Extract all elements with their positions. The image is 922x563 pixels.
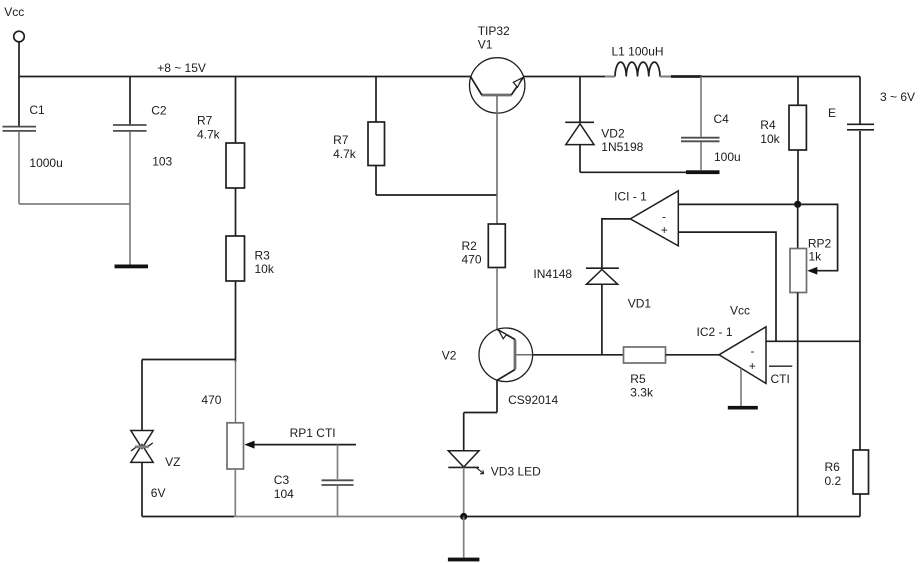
wire E down to R6 [859,131,861,450]
arrow V1 emitter [513,78,522,88]
wire V2 emitter down to LED [496,380,498,412]
svg-text:1000u: 1000u [29,156,62,170]
svg-text:CTI: CTI [771,372,790,386]
svg-text:C2: C2 [151,104,167,118]
ground under C2 [115,265,149,269]
wire bold segment right of L1 [671,75,702,78]
svg-text:R5: R5 [630,372,646,386]
wire IC2 minus input [766,340,860,342]
wire rail to R7 second [375,77,377,123]
svg-text:470: 470 [201,393,221,407]
svg-text:ICI - 1: ICI - 1 [614,190,647,204]
svg-text:103: 103 [152,155,172,169]
svg-text:VD1: VD1 [628,297,652,311]
svg-text:10k: 10k [760,132,780,146]
svg-text:3.3k: 3.3k [630,386,654,400]
resistor R3 [226,236,245,281]
svg-text:470: 470 [462,253,482,267]
diode VD1 IN4148 [586,267,619,269]
svg-text:0.2: 0.2 [825,474,842,488]
wire ICI plus input [678,232,776,341]
svg-text:R2: R2 [462,239,478,253]
wire rail inductor to right corner [660,76,860,78]
wire R7 to R3 [235,188,237,236]
resistor R5 [624,347,666,363]
svg-text:TIP32: TIP32 [478,24,510,38]
capacitor C1 [18,77,20,127]
wire R3 down to RP1 [235,281,237,362]
svg-text:Vcc: Vcc [730,304,750,318]
wire LED to rail [463,467,465,516]
wire E rail corner down [859,77,861,124]
transistor V1 TIP32 [470,58,525,113]
svg-text:VZ: VZ [165,455,180,469]
svg-text:+: + [661,223,668,237]
wire RP2 wiper loop [800,204,838,270]
svg-text:R3: R3 [255,248,271,262]
svg-text:VD2: VD2 [601,126,625,140]
svg-text:104: 104 [274,487,294,501]
node Vcc terminal [14,31,25,42]
wire ICI minus input [678,203,795,205]
zener VZ [131,431,153,449]
svg-text:4.7k: 4.7k [197,127,221,141]
wire rail V1 to inductor [524,76,616,78]
wire branch to VZ [142,359,236,361]
wire RP1 to bottom rail [234,469,236,517]
wire R7 second to base node [375,166,377,196]
svg-text:CS92014: CS92014 [508,393,558,407]
svg-text:V2: V2 [442,349,457,363]
wire C1 bottom [18,132,20,205]
svg-text:R7: R7 [197,114,213,128]
LED VD3 [448,451,479,467]
svg-text:RP1 CTI: RP1 CTI [290,426,336,440]
capacitor C3 [337,445,339,479]
wire RP1 wiper arrow [252,444,356,446]
svg-text:3 ~ 6V: 3 ~ 6V [880,90,915,104]
svg-text:IC2 - 1: IC2 - 1 [697,325,733,339]
wire R2 to V2 [496,268,498,329]
op-amp IC2-1 [719,327,766,384]
transistor V2 CS92014 [479,328,533,382]
svg-text:E: E [828,106,836,120]
wire V2 base to R5 [533,354,624,356]
svg-text:R4: R4 [760,118,776,132]
wire C2 to ground [129,132,131,265]
resistor R2 [488,224,505,268]
wire bottom rail [142,516,234,518]
ground under IC2 [740,369,742,407]
op-amp ICI-1 [630,191,678,246]
resistor R4 [797,77,799,106]
wire RP2 bottom to rail [797,293,799,517]
wire top rail left segment [19,76,471,78]
resistor R6 [853,450,869,494]
node junction dot R4/RP2 [794,201,801,208]
wire R5 to IC2 [666,354,720,356]
svg-text:10k: 10k [255,262,275,276]
svg-text:R6: R6 [825,460,841,474]
svg-text:100u: 100u [714,150,741,164]
svg-text:-: - [751,344,755,358]
ground under C4 [686,170,720,174]
svg-text:L1 100uH: L1 100uH [612,45,664,59]
capacitor C2 [129,77,131,125]
wire rail to R7 left [235,77,237,144]
svg-text:+: + [749,359,756,373]
potentiometer RP1 [227,423,244,469]
svg-text:-: - [662,210,666,224]
inductor L1 [615,62,660,76]
svg-text:IN4148: IN4148 [533,267,572,281]
net CTI overline stub [769,365,792,367]
svg-text:C1: C1 [29,103,45,117]
capacitor C4 [700,77,702,137]
potentiometer RP2 [797,204,799,248]
ground bottom center [463,517,465,558]
svg-text:4.7k: 4.7k [333,147,357,161]
svg-text:R7: R7 [333,133,349,147]
svg-text:VD3 LED: VD3 LED [491,464,541,478]
wire VD2 to ground line [579,145,581,173]
svg-text:6V: 6V [151,486,166,500]
svg-text:V1: V1 [478,38,493,52]
svg-text:1k: 1k [809,250,823,264]
svg-text:C3: C3 [274,473,290,487]
node junction dot bottom [460,513,467,520]
wire VD1 to R5 line [601,284,603,355]
arrow V2 emitter [499,331,507,339]
wire VZ to bottom rail [141,462,143,516]
wire ICI output to VD1 [602,219,630,268]
capacitor E [847,123,874,125]
svg-text:Vcc: Vcc [4,5,24,19]
diode VD2 [579,77,581,123]
wire Vcc to rail [18,42,20,77]
svg-text:1N5198: 1N5198 [601,140,643,154]
svg-text:+8 ~ 15V: +8 ~ 15V [157,61,206,75]
resistor R7 second [368,122,385,166]
resistor R7 left [226,143,245,188]
svg-text:C4: C4 [714,112,730,126]
